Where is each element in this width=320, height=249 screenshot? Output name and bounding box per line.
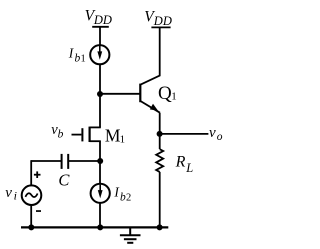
label VDD (right supply) bbox=[144, 9, 172, 28]
wire: VDD bar to Ib1 bbox=[99, 27, 101, 45]
wire: node C to vo bbox=[160, 133, 209, 135]
transistor Q1 bbox=[140, 84, 160, 113]
svg-text:v: v bbox=[209, 125, 216, 141]
svg-text:C: C bbox=[58, 171, 70, 190]
svg-text:2: 2 bbox=[126, 192, 131, 203]
node A (gate/base node) bbox=[97, 91, 103, 97]
base bar bbox=[139, 84, 141, 103]
label RL bbox=[175, 154, 194, 176]
left plate bbox=[61, 154, 63, 169]
junction dot RL-rail bbox=[157, 224, 163, 230]
label VDD (left supply) bbox=[85, 8, 112, 27]
supply bar VDD left bbox=[92, 26, 109, 28]
supply bar VDD right bbox=[151, 26, 170, 28]
resistor RL bbox=[156, 149, 163, 172]
current source Ib1 bbox=[90, 45, 109, 64]
emitter with arrow bbox=[141, 101, 160, 113]
svg-text:b: b bbox=[58, 128, 64, 140]
svg-text:DD: DD bbox=[153, 14, 172, 28]
ground symbol bbox=[120, 227, 141, 242]
wire: node A to M1 drain bbox=[99, 94, 101, 127]
wire: Ib1 to node A bbox=[99, 64, 101, 94]
svg-text:L: L bbox=[185, 161, 193, 175]
wire: node A to Q1 base bbox=[100, 93, 140, 95]
label Ib2 bbox=[113, 184, 131, 203]
svg-text:i: i bbox=[14, 189, 17, 203]
junction dot vi-rail bbox=[28, 224, 34, 230]
svg-text:M: M bbox=[105, 125, 121, 145]
left cap wire bbox=[31, 160, 61, 162]
label M1 bbox=[105, 125, 125, 145]
current source Ib2 bbox=[91, 184, 110, 203]
svg-text:1: 1 bbox=[81, 53, 86, 64]
wire: vi to ground rail bbox=[30, 205, 32, 227]
source vi bbox=[22, 185, 42, 205]
wire: VDD bar to Q1 collector bbox=[141, 27, 160, 84]
label vb bbox=[51, 122, 63, 140]
ground rail bbox=[21, 226, 168, 228]
channel bar bbox=[88, 127, 90, 142]
drain lead bbox=[90, 126, 101, 128]
plus sign bbox=[34, 171, 41, 178]
wire: corner down to vi source bbox=[30, 160, 32, 185]
svg-text:o: o bbox=[217, 131, 223, 143]
junction dot Ib2-rail bbox=[97, 224, 103, 230]
wire: node C to RL bbox=[159, 134, 161, 149]
label vi bbox=[5, 185, 17, 203]
wire: Ib2 to ground rail bbox=[99, 203, 101, 228]
svg-text:DD: DD bbox=[93, 13, 112, 27]
svg-text:1: 1 bbox=[120, 133, 126, 145]
wire: emitter to node C bbox=[159, 113, 161, 134]
svg-text:v: v bbox=[5, 185, 12, 201]
node B (capacitor node) bbox=[97, 158, 103, 164]
sine wave inside vi bbox=[25, 193, 37, 197]
right plate bbox=[67, 154, 69, 169]
right cap wire bbox=[69, 160, 100, 162]
label C bbox=[58, 171, 70, 190]
gate lead bbox=[72, 134, 82, 136]
minus sign bbox=[36, 210, 41, 212]
node C (output node) bbox=[157, 131, 163, 137]
svg-text:Q: Q bbox=[158, 83, 172, 104]
wire: node B to Ib2 bbox=[99, 161, 101, 184]
svg-text:R: R bbox=[175, 154, 186, 171]
wire: RL to ground rail bbox=[159, 172, 161, 228]
capacitor C bbox=[31, 154, 100, 169]
source lead bbox=[90, 140, 101, 142]
gate bar bbox=[81, 128, 83, 141]
label vo bbox=[209, 125, 223, 143]
mosfet M1 bbox=[72, 127, 101, 142]
label Ib1 bbox=[68, 46, 86, 65]
svg-text:1: 1 bbox=[171, 90, 177, 102]
wire: M1 source to node B bbox=[99, 141, 101, 161]
label Q1 bbox=[158, 83, 177, 104]
